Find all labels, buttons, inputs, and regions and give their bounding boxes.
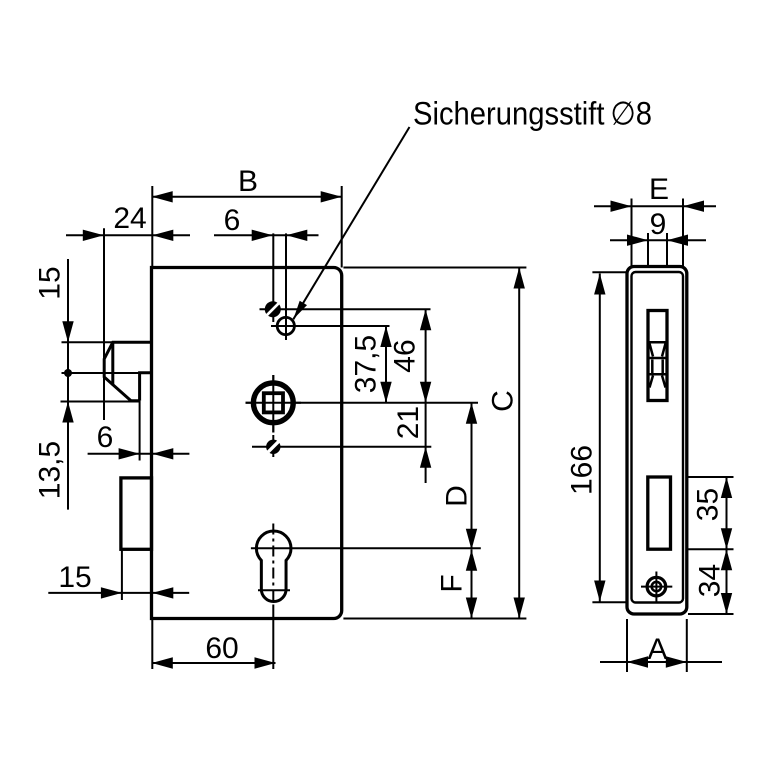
latch bolt inner edge [111,342,114,385]
node: centerline dash [272,435,274,438]
wire: extension latch notch left [62,372,141,374]
dimension 24 [66,234,190,236]
svg-text:166: 166 [566,445,599,495]
dimension 37,5 [385,326,387,403]
wire: 35 extensions [672,476,734,478]
dimension 15 bottom [48,592,189,594]
dimension 166 [599,274,601,602]
svg-text:9: 9 [650,208,667,241]
wire: extension case left edge below (60) [151,619,153,670]
wire: keyhole center extension to D [251,547,481,549]
screw hole [647,577,666,596]
spindle hub U-shaped follower [253,383,293,423]
wire: extension deadbolt left down (15 bottom) [121,549,123,600]
wire: extension line hub center to D [246,402,479,404]
dimension 6 top [214,234,319,236]
svg-text:37,5: 37,5 [350,335,383,393]
deadbolt [121,478,152,549]
slot narrow channel [651,360,654,374]
leader line Sicherungsstift [293,127,409,319]
svg-text:60: 60 [205,632,238,665]
follower slot [648,311,667,401]
dimension 6 left [88,453,190,455]
dimension D [471,403,473,550]
svg-text:E: E [649,173,669,206]
wire: A extensions [626,619,628,672]
dimension B [152,196,342,198]
node: centerline below keyhole [272,607,274,669]
bolt slot rectangle (35) [648,477,671,549]
svg-text:6: 6 [97,421,114,454]
svg-text:B: B [238,165,258,198]
dimension 15 left / 13,5 left [67,259,69,510]
side view outer envelope (faceplate) [627,267,687,615]
wire: extension line pin circle to 46 [260,308,431,310]
svg-text:15: 15 [58,561,91,594]
wire: 34 bottom extension [688,613,734,615]
side view inner case box [632,272,684,603]
wire: extension case left edge above (B/24) [151,186,153,268]
slot trapezoid 2 sides [650,376,654,388]
node: centerline lower pin [272,438,274,457]
node: centerline keyhole dash-dot [272,524,274,608]
latch bolt stub [140,373,152,401]
dimension 46 and 21 [425,309,427,483]
wire: extension line safety pin to 37,5 [271,325,390,327]
svg-text:24: 24 [113,202,146,235]
latch bolt head [104,342,151,401]
node: centerline hub vertical [272,375,274,433]
slot divider 3 [648,373,667,376]
wire: 9 extension lines [647,233,649,311]
dimension 34 [726,549,728,614]
wire: keyhole bottom arc tick [258,589,290,591]
node: centerline upper segment [272,233,274,322]
pin top (filled) [265,301,281,317]
dimension A [600,661,722,663]
wire: extension line case bottom to C [343,618,526,620]
svg-text:A: A [647,633,667,666]
wire: extension latch stub down (6 left) [139,401,141,461]
svg-text:Sicherungsstift ∅8: Sicherungsstift ∅8 [413,96,652,132]
slot divider 1 [648,341,667,344]
wire: extension latch bottom left [61,401,141,403]
wire: extension line lower pin to 21 [252,446,431,448]
safety pin circle (Sicherungsstift) [277,317,294,334]
svg-text:15: 15 [34,266,67,299]
svg-text:46: 46 [389,339,422,372]
slot divider 2 [648,357,667,360]
node: centerline through safety pin [285,233,287,340]
wire: extension latch tip vertical [103,228,105,420]
svg-text:D: D [441,485,474,507]
dimension 60 [152,662,276,664]
svg-text:13,5: 13,5 [34,441,67,499]
lock case outline [152,268,342,619]
svg-text:F: F [436,574,469,592]
svg-text:6: 6 [224,204,241,237]
wire: 166 extensions [592,271,631,273]
dimension C [518,268,520,619]
wire: extension line case top to C [343,267,526,269]
wire: extension latch top left [62,341,114,343]
slot trapezoid 1 sides [650,344,654,357]
dimension 35 [726,477,728,549]
svg-text:35: 35 [692,488,725,521]
dimension E [594,205,716,207]
dimension 9 [610,239,706,241]
wire: E extension lines [631,199,633,273]
svg-text:C: C [487,390,520,412]
wire: extension case right edge above (B) [341,186,343,268]
svg-text:21: 21 [392,406,425,439]
keyhole euro profile cylinder [256,531,291,602]
dimension F [471,550,473,619]
svg-text:34: 34 [694,564,727,597]
pin lower (filled) [266,440,280,454]
